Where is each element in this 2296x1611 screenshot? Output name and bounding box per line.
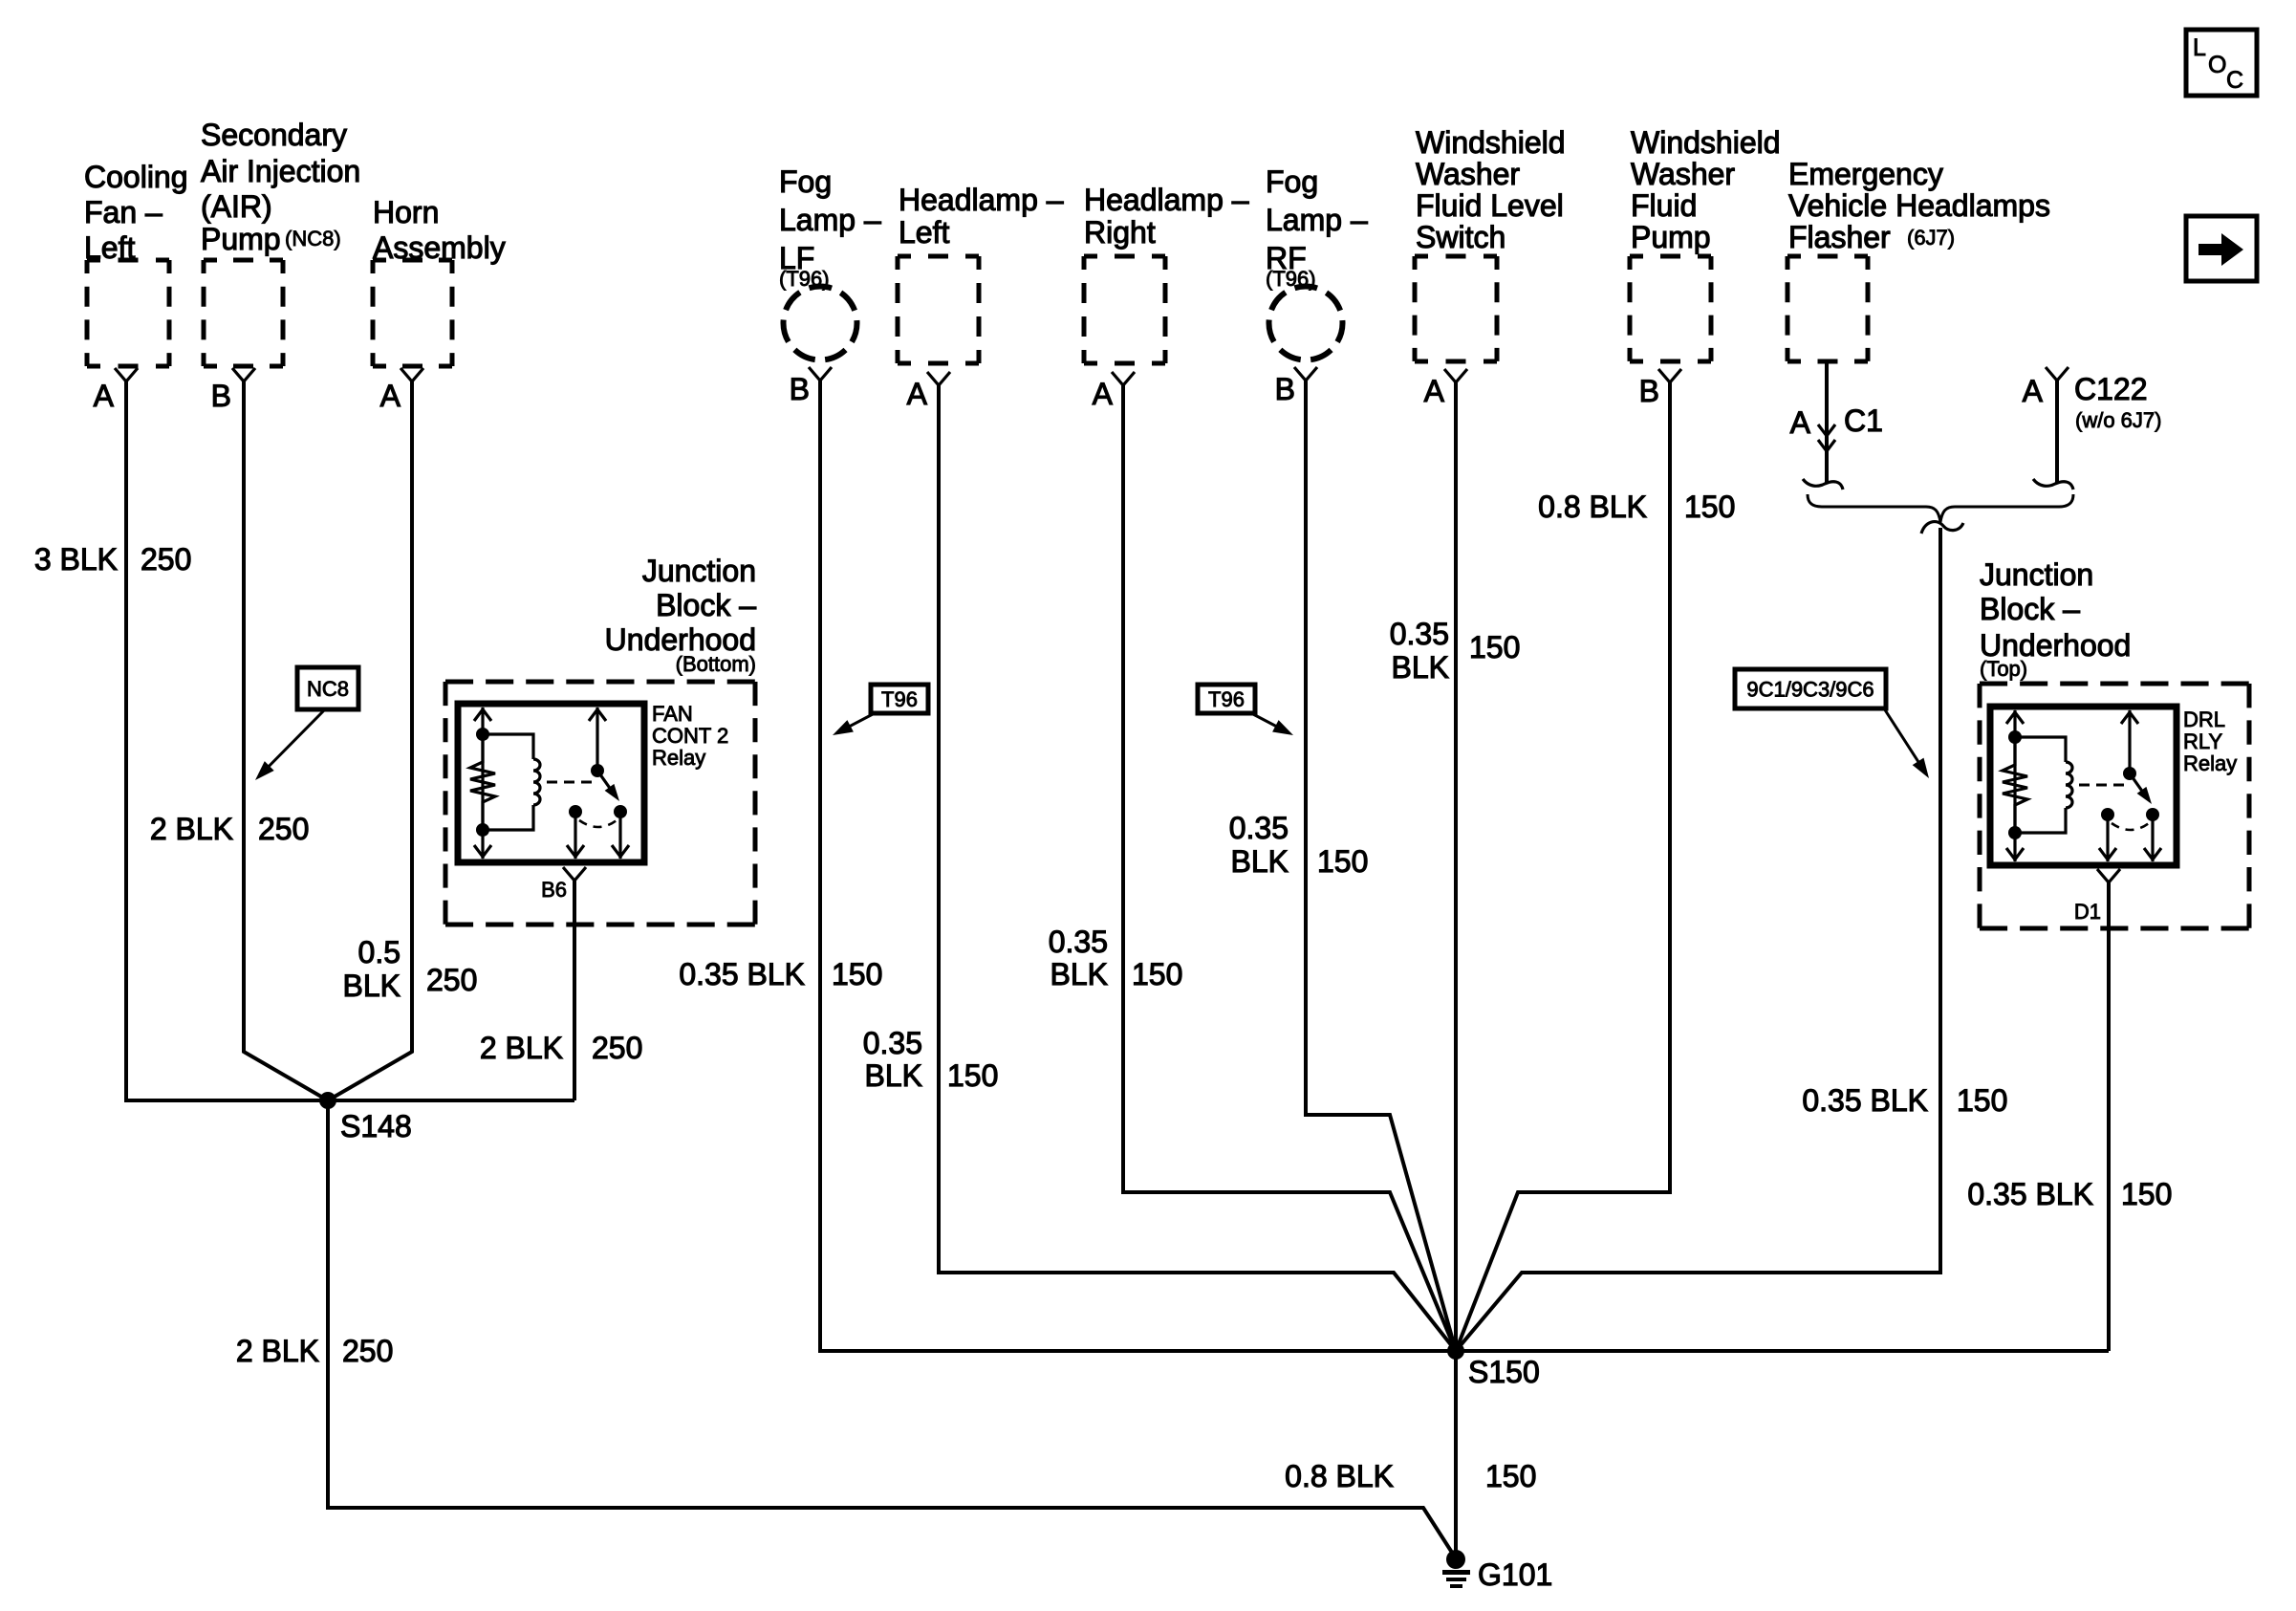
arrow navigation box (2186, 216, 2257, 281)
svg-text:Windshield: Windshield (1631, 125, 1781, 160)
svg-text:BLK: BLK (1231, 844, 1289, 879)
svg-text:BLK: BLK (865, 1058, 922, 1093)
svg-text:Fluid Level: Fluid Level (1416, 188, 1564, 223)
svg-text:Pump: Pump (1631, 220, 1711, 254)
pin A Y-connector (Fluid Level Switch) (1444, 369, 1467, 382)
svg-text:Lamp –: Lamp – (779, 203, 881, 237)
pin A Y-connector (Headlamp Right) (1112, 372, 1135, 385)
value label 2 BLK 250 (B6 wire) (480, 1031, 643, 1065)
svg-text:150: 150 (2121, 1177, 2172, 1211)
svg-text:S150: S150 (1468, 1355, 1540, 1389)
wire: S148 to G101 (2 BLK 250) (328, 1100, 1456, 1558)
svg-text:(w/o 6J7): (w/o 6J7) (2075, 408, 2161, 432)
pin B6 Y-connector (FAN CONT 2 relay output) (563, 867, 586, 881)
value label 2 BLK 250 (AIR pump wire) (150, 812, 310, 846)
svg-text:FAN: FAN (652, 702, 693, 726)
svg-text:0.35: 0.35 (1390, 617, 1449, 651)
label: Fog Lamp - RF (1266, 164, 1368, 275)
svg-text:Left: Left (899, 215, 949, 250)
pin B Y-connector (Fog Lamp LF) (809, 367, 832, 381)
svg-text:Relay: Relay (2183, 751, 2237, 775)
svg-text:C: C (2226, 67, 2243, 94)
svg-text:150: 150 (1469, 630, 1520, 664)
wire: Fluid Level Switch A through S150 to G101 (1454, 382, 1458, 1558)
svg-text:Relay: Relay (652, 746, 705, 770)
svg-text:150: 150 (947, 1058, 998, 1093)
svg-text:Fog: Fog (1266, 164, 1318, 199)
connector: Washer Fluid Pump (dashed box) (1630, 256, 1711, 361)
value label 0.5 BLK 250 (horn wire) (343, 935, 478, 1003)
label: Junction Block - Underhood (Top) (1980, 557, 2131, 663)
svg-text:DRL: DRL (2183, 708, 2225, 731)
ground symbol G101 (1442, 1570, 1470, 1588)
svg-text:NC8: NC8 (307, 677, 349, 701)
label: DRL RLY Relay (2183, 708, 2237, 775)
svg-text:CONT 2: CONT 2 (652, 724, 728, 748)
junction block underhood bottom (dashed box) (445, 682, 755, 925)
svg-text:Horn: Horn (373, 195, 439, 229)
svg-text:150: 150 (1684, 490, 1735, 524)
label: Cooling Fan - Left (84, 160, 188, 265)
label: Emergency Vehicle Headlamps Flasher (1788, 157, 2050, 254)
wire: C122 drop (2055, 381, 2059, 483)
ground junction dot G101 (1446, 1550, 1465, 1569)
value label 0.35 BLK 150 (headlamp left wire) (863, 1026, 999, 1093)
svg-text:250: 250 (426, 963, 477, 997)
splice S150 (1447, 1342, 1464, 1360)
value label 0.35 BLK 150 (brace drop wire) (1802, 1083, 2007, 1118)
svg-text:Air Injection: Air Injection (201, 154, 360, 188)
svg-text:Headlamp –: Headlamp – (899, 183, 1064, 217)
wire: relay pin B6 down to S148 (2 BLK 250) (573, 881, 576, 1100)
pin D1 Y-connector (DRL relay output) (2097, 869, 2120, 882)
svg-text:Headlamp –: Headlamp – (1084, 183, 1249, 217)
svg-text:Block –: Block – (1980, 592, 2080, 626)
svg-text:(Bottom): (Bottom) (676, 652, 756, 676)
svg-text:250: 250 (592, 1031, 642, 1065)
wire: Headlamp Left A to S150 (939, 385, 1456, 1351)
svg-text:Junction: Junction (1980, 557, 2093, 592)
svg-text:0.5: 0.5 (358, 935, 401, 969)
svg-text:150: 150 (1957, 1083, 2007, 1118)
svg-text:G101: G101 (1478, 1557, 1552, 1592)
svg-text:0.35: 0.35 (1049, 925, 1108, 959)
wire: junction brace drop to S150 (1456, 528, 1940, 1351)
inline connector C1 arrow chevrons (1818, 425, 1835, 436)
svg-text:(NC8): (NC8) (285, 227, 341, 250)
svg-text:Pump: Pump (201, 222, 281, 256)
svg-text:A: A (94, 379, 115, 413)
svg-text:2 BLK: 2 BLK (150, 812, 233, 846)
svg-text:(6J7): (6J7) (1907, 226, 1955, 250)
svg-text:Windshield: Windshield (1416, 125, 1566, 160)
LOC reference box (2186, 30, 2257, 96)
svg-text:Fluid: Fluid (1631, 188, 1697, 223)
pin B Y-connector (AIR Pump) (232, 368, 255, 381)
svg-text:Lamp –: Lamp – (1266, 203, 1368, 237)
connector: Headlamp Right (dashed box) (1084, 256, 1165, 363)
svg-text:A: A (1093, 377, 1114, 411)
connector: Horn Assembly (dashed box) (373, 260, 452, 366)
svg-text:(Top): (Top) (1980, 657, 2027, 681)
brace: harness merge under flasher/C122 (1808, 494, 2073, 522)
relay: FAN CONT 2 Relay (458, 704, 644, 862)
svg-text:Cooling: Cooling (84, 160, 188, 194)
svg-text:250: 250 (342, 1334, 393, 1368)
label: Fog Lamp - LF (779, 164, 881, 275)
value label 0.35 BLK 150 (fog RF wire) (1229, 811, 1369, 879)
svg-text:Right: Right (1084, 215, 1156, 250)
wire end curl (C122 harness continuation) (2033, 479, 2073, 490)
value label 0.8 BLK 150 (S150 to G101 wire) (1285, 1459, 1536, 1493)
connector: Fog Lamp LF (dashed circle) (784, 287, 857, 360)
svg-text:A: A (1424, 374, 1445, 408)
svg-text:Washer: Washer (1416, 157, 1520, 191)
value label 0.35 BLK 150 (DRL D1 wire) (1967, 1177, 2172, 1211)
callout box 9C1/9C3/9C6 with arrow (1735, 669, 1929, 778)
svg-text:0.8 BLK: 0.8 BLK (1538, 490, 1647, 524)
svg-text:Junction: Junction (642, 554, 756, 588)
svg-text:Fan –: Fan – (84, 195, 162, 229)
svg-text:Fog: Fog (779, 164, 832, 199)
pin A Y-connector (C122) (2046, 367, 2069, 381)
svg-text:BLK: BLK (343, 969, 401, 1003)
pin A Y-connector (Horn) (401, 368, 423, 381)
splice S148 (319, 1092, 336, 1109)
label: Horn Assembly (373, 195, 506, 265)
pin B Y-connector (Fog Lamp RF) (1294, 367, 1317, 381)
value label 0.35 BLK 150 (fog LF wire) (679, 957, 882, 991)
svg-text:3 BLK: 3 BLK (34, 542, 118, 577)
connector: Cooling Fan - Left (dashed box) (87, 260, 169, 366)
svg-text:0.35 BLK: 0.35 BLK (679, 957, 805, 991)
svg-text:0.35: 0.35 (863, 1026, 922, 1060)
svg-text:150: 150 (832, 957, 882, 991)
svg-text:C122: C122 (2074, 372, 2148, 406)
wire: Horn A to S148 (0.5 BLK 250) (328, 381, 412, 1100)
wire: AIR Pump B to S148 (2 BLK 250) (244, 381, 328, 1100)
callout box NC8 with arrow (255, 667, 358, 780)
svg-text:C1: C1 (1844, 403, 1883, 438)
svg-text:Flasher: Flasher (1788, 220, 1891, 254)
svg-text:A: A (380, 379, 401, 413)
callout box T96 (right) with arrow (1198, 685, 1293, 735)
label: Windshield Washer Fluid Level Switch (1416, 125, 1566, 254)
svg-text:250: 250 (258, 812, 309, 846)
svg-text:T96: T96 (1208, 687, 1245, 711)
svg-text:2 BLK: 2 BLK (236, 1334, 319, 1368)
label: FAN CONT 2 Relay (652, 702, 728, 770)
svg-text:L: L (2193, 34, 2206, 61)
wire: Cooling Fan A to S148 (3 BLK 250) (126, 381, 574, 1100)
svg-text:0.35 BLK: 0.35 BLK (1802, 1083, 1928, 1118)
svg-text:BLK: BLK (1392, 650, 1449, 685)
svg-text:RLY: RLY (2183, 729, 2222, 753)
label: Headlamp - Right (1084, 183, 1249, 250)
svg-text:250: 250 (141, 542, 191, 577)
wire: DRL D1 down to S150 horizontal (2107, 882, 2111, 1351)
svg-text:0.35: 0.35 (1229, 811, 1289, 845)
wire: Headlamp Right A to S150 (1123, 385, 1456, 1351)
callout box T96 (left) with arrow (833, 685, 928, 735)
value label 2 BLK 250 (S148 to ground wire) (236, 1334, 394, 1368)
squiggle: wire continuation symbol below brace (1921, 522, 1963, 533)
svg-text:A: A (2023, 374, 2044, 408)
label: Secondary Air Injection (AIR) Pump (201, 118, 360, 256)
svg-text:0.8 BLK: 0.8 BLK (1285, 1459, 1394, 1493)
svg-text:A: A (1790, 405, 1811, 440)
svg-text:T96: T96 (881, 687, 918, 711)
connector: Washer Fluid Level Switch (dashed box) (1415, 256, 1497, 361)
wire: Fluid Pump B to S150 (1456, 382, 1670, 1351)
relay: DRL RLY Relay (1990, 707, 2177, 865)
value label 0.8 BLK 150 (fluid pump wire) (1538, 490, 1735, 524)
svg-text:150: 150 (1132, 957, 1182, 991)
wire end curl (C1 harness continuation) (1803, 479, 1843, 490)
svg-text:2 BLK: 2 BLK (480, 1031, 563, 1065)
wire: Fog Lamp RF B to S150 (1306, 381, 1456, 1351)
svg-text:Vehicle Headlamps: Vehicle Headlamps (1788, 188, 2050, 223)
wire: Fog Lamp LF B to S150 / S150 to DRL D1 horizontal (820, 381, 2109, 1351)
svg-text:150: 150 (1485, 1459, 1536, 1493)
svg-text:Switch: Switch (1416, 220, 1505, 254)
svg-text:A: A (907, 377, 928, 411)
svg-text:B: B (1275, 372, 1295, 406)
pin A Y-connector (Headlamp Left) (927, 372, 950, 385)
connector: EV Headlamps Flasher (dashed box) (1787, 256, 1868, 361)
svg-text:BLK: BLK (1051, 957, 1108, 991)
svg-text:B: B (790, 372, 810, 406)
svg-text:150: 150 (1317, 844, 1368, 879)
svg-text:Washer: Washer (1631, 157, 1735, 191)
connector: Fog Lamp RF (dashed circle) (1269, 287, 1343, 360)
svg-text:Secondary: Secondary (201, 118, 347, 152)
svg-text:B: B (211, 379, 231, 413)
svg-text:0.35 BLK: 0.35 BLK (1967, 1177, 2093, 1211)
connector: Headlamp Left (dashed box) (898, 256, 979, 363)
svg-text:(AIR): (AIR) (201, 189, 272, 224)
svg-text:B6: B6 (541, 878, 567, 902)
connector: AIR Pump (dashed box) (204, 260, 283, 366)
pin A Y-connector (Cooling Fan) (115, 368, 138, 381)
value label 0.35 BLK 150 (headlamp right wire) (1049, 925, 1183, 991)
wire: flasher pin A drop to connector C1 (1825, 363, 1829, 483)
value label 3 BLK 250 (cooling fan wire) (34, 542, 192, 577)
pin B Y-connector (Fluid Pump) (1658, 369, 1681, 382)
value label 0.35 BLK 150 (fluid level switch wire) (1390, 617, 1521, 685)
svg-text:S148: S148 (340, 1109, 412, 1143)
svg-text:D1: D1 (2074, 900, 2101, 924)
svg-text:B: B (1639, 374, 1659, 408)
svg-text:O: O (2208, 52, 2226, 78)
junction block underhood top (dashed box) (1980, 684, 2249, 928)
label: Windshield Washer Fluid Pump (1631, 125, 1781, 254)
svg-text:9C1/9C3/9C6: 9C1/9C3/9C6 (1746, 678, 1874, 702)
label: Junction Block - Underhood (Bottom) (605, 554, 757, 657)
svg-text:Block –: Block – (656, 588, 756, 622)
label: Headlamp - Left (899, 183, 1064, 250)
svg-text:Emergency: Emergency (1788, 157, 1943, 191)
